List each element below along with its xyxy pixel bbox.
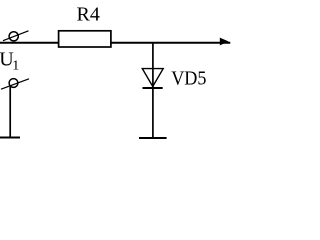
wire vertical left — [9, 87, 11, 137]
node bar below diode — [139, 137, 167, 139]
terminal X1 top — [3, 31, 29, 41]
svg-text:1: 1 — [12, 59, 19, 74]
terminal X2 bottom — [1, 79, 29, 90]
node bar bottom left — [0, 137, 20, 139]
arrowhead output — [220, 38, 229, 46]
svg-text:VD5: VD5 — [171, 68, 206, 90]
wire top rail — [0, 42, 230, 44]
wire vertical branch — [152, 42, 154, 137]
diode VD5 — [142, 69, 163, 88]
resistor R4 — [59, 31, 111, 47]
svg-text:R4: R4 — [77, 4, 100, 26]
